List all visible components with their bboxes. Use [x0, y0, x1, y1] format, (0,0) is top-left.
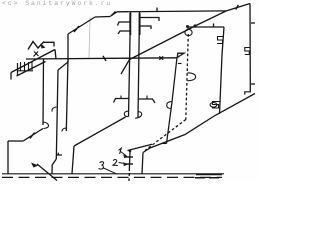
valve tick on jog: [112, 12, 116, 16]
ground hatch dashes left: [2, 176, 222, 178]
big supply diagonal D1: [130, 4, 251, 60]
entry valve tick 1: [126, 156, 133, 158]
R3 foot hook: [135, 112, 142, 119]
riser R4: [220, 27, 225, 114]
label 3 leader: [104, 168, 117, 174]
R2 branch arm 3rd floor a: [118, 22, 131, 26]
ground line right double: [196, 174, 222, 176]
water meter zigzag bypass: [28, 42, 44, 50]
riser Rb: [56, 70, 58, 159]
riser Rb jog at bottom: [52, 159, 56, 174]
meter bypass top bar: [44, 42, 54, 46]
riser R1 lower run to ground: [66, 59, 68, 132]
top main horizontal: [117, 10, 226, 13]
label 2 arrowhead: [123, 162, 128, 166]
riser R3: [138, 12, 140, 117]
entry junction dot: [129, 150, 132, 153]
riser Ra foot hook: [43, 122, 49, 129]
riser R3 top bar: [139, 13, 141, 35]
branch horizontal stub: [8, 140, 24, 142]
R3 arm tick: [146, 96, 148, 100]
label 4 arrowhead: [31, 163, 39, 168]
meter hatch base: [18, 70, 34, 72]
riser R1 jog: [58, 62, 68, 70]
riser R2 top bar: [129, 13, 131, 35]
riser Rb branch hook: [52, 107, 57, 112]
dashed return diagonal: [145, 120, 186, 151]
top-left diagonal pipe: [68, 17, 95, 34]
R2 foot hook: [124, 111, 128, 117]
D3 drop to ground: [72, 146, 74, 174]
pump circle symbol: [185, 29, 192, 35]
big supply diagonal D1 start stub: [121, 60, 130, 75]
R2 branch arm 3rd floor b: [118, 31, 130, 34]
riser R1 left: [67, 34, 69, 62]
valve tick on top-left diagonal: [74, 26, 79, 32]
dashed return riser: [186, 34, 189, 120]
basement diagonal D3 to left risers: [74, 117, 126, 146]
R2 branch arm 2nd floor: [114, 99, 130, 103]
tick on H_R: [213, 24, 215, 28]
basement diagonal D2 solid: [143, 94, 255, 153]
top horizontal pipe 2nd-floor left: [95, 16, 110, 19]
R4 branch hook top: [217, 37, 224, 44]
label 1 leader: [121, 152, 127, 157]
label 2 digit: [113, 159, 118, 165]
ground hatch dashes right heavy: [195, 177, 222, 179]
R3 branch arm 3rd floor b: [140, 26, 152, 29]
faint crease line: [89, 18, 90, 59]
meter hatch left post: [17, 63, 19, 76]
tick on R5 lower: [251, 83, 255, 85]
label 3 digit: [99, 162, 104, 169]
label 1 digit: [119, 148, 122, 154]
tick on R5 upper: [251, 22, 255, 24]
riser R1 end curl: [62, 128, 66, 132]
valve tick on meter inlet: [34, 52, 39, 57]
entry valve tick 2: [126, 163, 133, 165]
R5 branch hook: [245, 48, 251, 55]
valve tick on D1 top: [236, 5, 239, 10]
R3 branch arm 3rd floor a: [140, 18, 160, 22]
label 4 leader arrow: [37, 164, 57, 181]
valve tick on Rb bottom: [57, 153, 63, 155]
stub at H_R left end: [187, 27, 189, 30]
water meter parallel pipe: [17, 62, 46, 77]
pump dot: [186, 25, 189, 28]
V_M foot curl: [163, 143, 167, 145]
D2 drop to ground: [142, 153, 143, 174]
junction dot on D1: [193, 24, 196, 27]
valve tick on branch: [30, 133, 35, 139]
entry pipe below ground dashed: [128, 173, 130, 181]
V_M branch hook: [167, 102, 172, 109]
drop pipe to ground left: [7, 141, 9, 174]
riser R2: [129, 12, 131, 117]
R4 branch hook bottom: [212, 102, 220, 109]
entry pipe vertical: [128, 152, 131, 172]
water meter unit inlet diagonal: [11, 50, 55, 73]
valve tick on M1: [103, 56, 106, 61]
riser R5 right: [249, 4, 251, 93]
vent tick on top main: [156, 8, 158, 12]
middle box top horizontal H_R: [188, 26, 224, 28]
basement main left horizontal M1: [26, 58, 177, 59]
valve tick on M1 right: [159, 56, 163, 60]
meter unit connection up: [55, 50, 56, 59]
R3 branch arm 2nd floor: [139, 99, 155, 103]
mid main drop pipe V_M: [167, 57, 178, 143]
oval fitting near R4 foot: [210, 103, 217, 108]
R2 arm tick: [120, 96, 122, 99]
riser Ra: [42, 59, 45, 126]
valve arrow on bypass: [41, 44, 46, 49]
water meter unit stub: [10, 73, 12, 80]
ground line: [2, 173, 224, 175]
R5 foot curl: [245, 92, 251, 95]
watermark text: [2, 0, 112, 7]
mid main end fitting flag: [177, 53, 184, 57]
meter hatch strokes: [21, 62, 33, 71]
V_M top step: [178, 63, 182, 65]
short solid stub at entry: [128, 144, 153, 150]
label 2 leader: [119, 163, 127, 164]
basement branch diagonal from Ra: [24, 129, 44, 141]
hook on dashed riser: [188, 73, 196, 81]
jog up in top main: [110, 12, 117, 17]
label 1 arrowhead: [123, 154, 128, 158]
